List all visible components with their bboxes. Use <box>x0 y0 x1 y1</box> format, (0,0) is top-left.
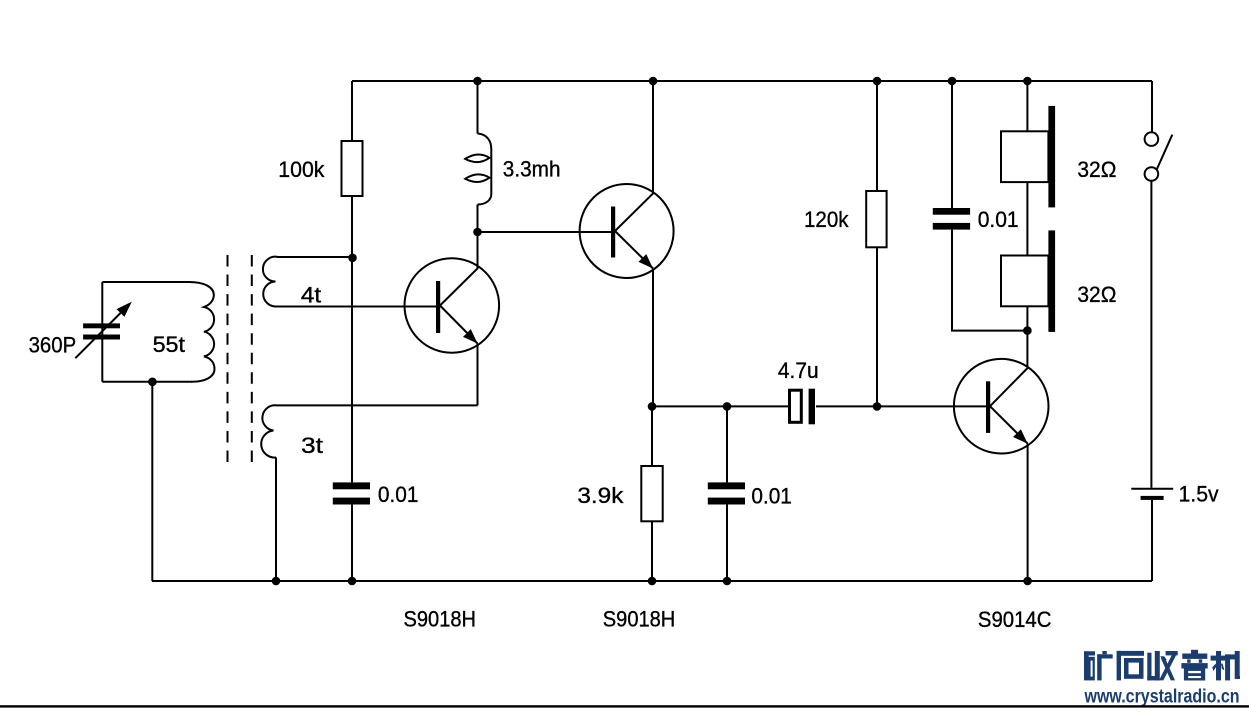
wire top rail <box>352 80 1152 82</box>
speaker SP1 bar <box>1048 106 1055 207</box>
wire node B to Q3 collector <box>1026 331 1028 368</box>
battery B1 short plate <box>1141 496 1164 500</box>
glyph shi <box>1117 651 1144 681</box>
node dot 100k 4t <box>348 253 357 262</box>
wire Q3 emitter down <box>1027 444 1029 581</box>
wire 100k branch lower <box>351 196 353 482</box>
wire C3 branch upper <box>951 81 953 208</box>
svg-text:S9014C: S9014C <box>978 607 1052 632</box>
coil L2 4t <box>263 257 353 307</box>
svg-text:3.9k: 3.9k <box>577 483 624 508</box>
switch S1 bottom contact <box>1145 167 1159 181</box>
bottom rule <box>0 705 1249 707</box>
transistor Q1 emitter <box>440 306 478 344</box>
transistor Q3 emitter arrow <box>1013 429 1028 443</box>
wire battery to bottom rail <box>1151 500 1153 581</box>
resistor R3 120k body <box>866 191 886 247</box>
node dot top rail inductor <box>473 77 482 86</box>
node dot bottom rail C1 <box>348 577 357 586</box>
svg-text:55t: 55t <box>153 332 185 357</box>
node dot tank tap <box>148 378 157 387</box>
capacitor C4 4.7u left plate <box>790 390 802 422</box>
switch S1 top contact <box>1145 132 1159 146</box>
coil L3 3t body <box>261 405 276 457</box>
transistor Q1 collector <box>440 232 478 306</box>
node dot B speaker bottom <box>1023 326 1032 335</box>
transistor Q2 emitter arrow <box>639 254 654 268</box>
wire switch branch <box>1151 81 1153 132</box>
node dot bottom rail C2 <box>723 577 732 586</box>
resistor R1 100k body <box>342 141 363 196</box>
transistor Q3 emitter <box>990 406 1028 443</box>
transistor Q2 base bar <box>611 207 615 258</box>
svg-text:3t: 3t <box>301 433 323 458</box>
speaker SP2 box <box>1001 256 1048 307</box>
svg-text:0.01: 0.01 <box>978 207 1019 232</box>
tank loop left side <box>101 282 103 382</box>
svg-text:S9018H: S9018H <box>603 606 676 631</box>
wire switch to battery <box>1150 181 1152 488</box>
wire C1 to bottom rail <box>351 505 353 582</box>
transistor Q3 collector <box>990 368 1028 406</box>
wire speakers branch top <box>1026 81 1028 131</box>
svg-text:100k: 100k <box>278 157 325 182</box>
wire 120k branch upper <box>876 81 878 191</box>
wire 4.7u to Q3 base <box>816 405 986 407</box>
transistor Q1 base bar <box>436 281 440 333</box>
wire speaker2 to node B <box>1026 306 1028 330</box>
variable capacitor CV arrowhead <box>117 302 132 317</box>
wire node A to Q2 base <box>478 231 612 233</box>
capacitor C1 0.01 plates <box>333 482 370 504</box>
wire 3.9k branch upper <box>651 406 653 466</box>
svg-text:1.5v: 1.5v <box>1179 482 1219 507</box>
inductor L5 loop1 <box>465 154 489 162</box>
wire inductor to node A <box>477 205 479 233</box>
speaker SP2 bar <box>1048 230 1055 332</box>
svg-text:S9018H: S9018H <box>404 607 477 632</box>
svg-text:360P: 360P <box>29 332 77 357</box>
svg-text:32Ω: 32Ω <box>1077 282 1116 307</box>
transistor Q3 circle <box>954 359 1049 454</box>
tank loop top wire <box>102 281 189 283</box>
svg-text:0.01: 0.01 <box>751 484 792 509</box>
wire between speakers <box>1026 182 1028 255</box>
node dot bottom rail Q3 emitter <box>1023 577 1032 586</box>
node dot A inductor collector <box>473 228 482 237</box>
glyph yin <box>1181 650 1207 681</box>
speaker SP1 box <box>1001 131 1048 182</box>
svg-text:0.01: 0.01 <box>378 482 419 507</box>
svg-text:120k: 120k <box>804 207 849 232</box>
node dot top rail C3 <box>948 77 957 86</box>
wire C2 branch upper <box>726 406 728 482</box>
wire C3 lower to speaker node <box>952 230 1027 331</box>
transistor Q2 emitter <box>615 231 653 269</box>
watermark logo chinese kuang shi shou yin ji <box>1084 650 1240 681</box>
inductor L5 3.3mh body <box>478 134 492 205</box>
svg-text:4.7u: 4.7u <box>778 358 819 383</box>
transformer core dashed lines <box>228 255 252 462</box>
wire 120k lower <box>876 247 878 406</box>
svg-text:www.crystalradio.cn: www.crystalradio.cn <box>1084 687 1240 708</box>
glyph kuang <box>1084 651 1113 680</box>
wire Q2 emitter down <box>652 269 654 407</box>
transistor Q1 circle <box>405 258 500 353</box>
coil L1 55t body <box>189 282 215 382</box>
switch S1 lever <box>1157 135 1172 169</box>
node dot top rail 120k <box>873 77 882 86</box>
wire 100k branch upper <box>351 81 353 141</box>
transistor Q2 circle <box>580 184 674 278</box>
wire tank tap down <box>151 382 153 581</box>
glyph ji <box>1211 651 1240 680</box>
wire inductor branch top <box>477 81 479 134</box>
resistor R2 3.9k body <box>641 466 662 521</box>
capacitor C2 0.01 plates <box>708 482 745 504</box>
node dot bottom rail 3.9k <box>648 577 657 586</box>
wire 3t to bottom rail <box>275 458 277 582</box>
wire C2 to bottom rail <box>726 505 728 582</box>
battery B1 long plate <box>1131 488 1173 490</box>
svg-text:4t: 4t <box>301 283 321 308</box>
variable capacitor CV arrow line <box>75 313 120 358</box>
node dot 120k Q3 base <box>873 402 882 411</box>
wire 3.9k to bottom rail <box>651 521 653 581</box>
node dot top rail speakers <box>1023 77 1032 86</box>
capacitor C3 0.01 plates <box>933 208 970 230</box>
glyph shou <box>1147 651 1177 680</box>
wire 4t to Q1 base <box>276 306 436 308</box>
svg-text:3.3mh: 3.3mh <box>503 156 561 181</box>
node dot Q2 emitter <box>648 402 657 411</box>
transistor Q3 base bar <box>986 381 990 433</box>
node dot C2 top <box>723 402 732 411</box>
wire Q1 emitter down <box>477 344 479 406</box>
tank loop bottom wire <box>102 381 192 383</box>
node dot top rail Q2 collector <box>649 77 658 86</box>
variable capacitor CV 360P plates <box>83 323 120 339</box>
svg-text:32Ω: 32Ω <box>1077 157 1116 182</box>
capacitor C4 4.7u right plate <box>809 389 815 425</box>
wire bottom rail <box>152 580 1152 582</box>
wire emitter node to 4.7u <box>652 405 788 407</box>
inductor L5 loop2 <box>465 174 489 182</box>
coil L3 3t top wire <box>276 404 478 406</box>
node dot bottom rail 3t <box>272 577 281 586</box>
transistor Q1 emitter arrow <box>463 329 478 343</box>
transistor Q2 collector <box>615 81 653 231</box>
